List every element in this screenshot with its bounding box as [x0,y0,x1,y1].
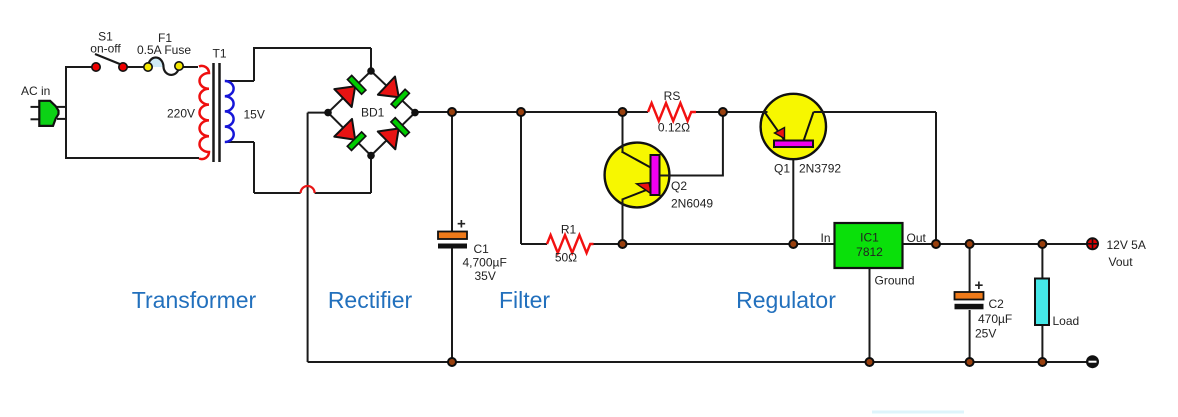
svg-text:2N3792: 2N3792 [799,162,841,176]
svg-text:IC1: IC1 [860,231,879,245]
svg-text:4,700µF: 4,700µF [463,256,507,270]
svg-text:Transformer: Transformer [132,287,257,313]
svg-text:2N6049: 2N6049 [671,197,713,211]
svg-text:BD1: BD1 [361,106,385,120]
svg-text:Out: Out [907,231,927,245]
svg-text:0.5A Fuse: 0.5A Fuse [137,43,191,57]
svg-text:220V: 220V [167,107,195,121]
svg-text:RS: RS [664,89,681,103]
svg-text:Load: Load [1053,314,1080,328]
svg-text:Filter: Filter [499,287,550,313]
svg-text:on-off: on-off [90,42,121,56]
svg-text:50Ω: 50Ω [555,251,577,265]
svg-text:+: + [457,216,466,233]
svg-text:0.12Ω: 0.12Ω [658,121,690,135]
svg-text:AC in: AC in [21,84,50,98]
svg-text:C2: C2 [989,297,1005,311]
svg-text:Regulator: Regulator [736,287,836,313]
svg-text:R1: R1 [561,223,577,237]
svg-text:Rectifier: Rectifier [328,287,413,313]
svg-text:+: + [975,277,984,294]
svg-text:In: In [820,231,830,245]
svg-text:T1: T1 [212,47,226,61]
svg-text:25V: 25V [975,327,996,341]
svg-text:35V: 35V [475,269,496,283]
svg-text:Q2: Q2 [671,179,687,193]
svg-text:470µF: 470µF [978,312,1012,326]
svg-text:7812: 7812 [856,245,883,259]
svg-text:Q1: Q1 [774,162,790,176]
svg-text:Vout: Vout [1109,255,1134,269]
svg-text:15V: 15V [244,108,265,122]
svg-text:Ground: Ground [875,274,915,288]
svg-text:C1: C1 [474,242,490,256]
svg-text:12V 5A: 12V 5A [1107,238,1146,252]
